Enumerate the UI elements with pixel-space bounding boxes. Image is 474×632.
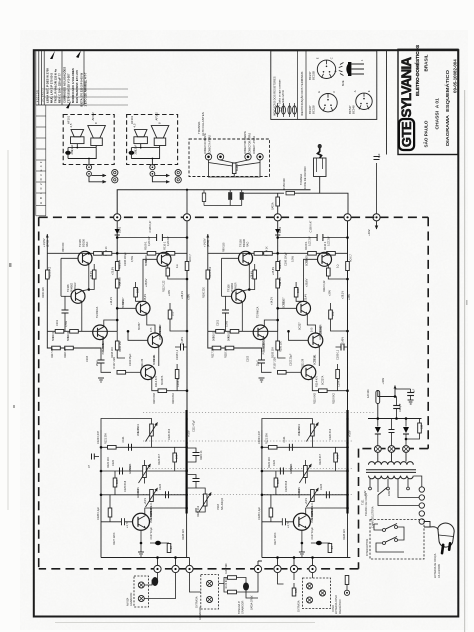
- svg-text:TOMADA: TOMADA: [299, 174, 303, 185]
- svg-text:4,5: 4,5: [69, 123, 73, 127]
- svg-text:A: A: [353, 90, 357, 92]
- bypass capacitor C127 leads: [150, 542, 169, 544]
- scan edge artifact left: [8, 150, 9, 510]
- divider network resistor RB1: [228, 576, 237, 580]
- phono jack ring 3: [320, 590, 326, 596]
- left strip divider 10: [36, 215, 46, 217]
- resistor symbol sample 2: [282, 103, 286, 117]
- headphone series resistor lead: [295, 192, 320, 194]
- svg-text:5K6: 5K6: [176, 454, 179, 459]
- title block GTE logo box: [399, 119, 414, 150]
- resistor R116 leads: [136, 282, 143, 301]
- fuse F101 body: [376, 391, 380, 404]
- feedthrough J3: [274, 214, 281, 221]
- terminal arrow upper: [92, 175, 107, 177]
- svg-text:SAÍDA: SAÍDA: [272, 202, 275, 210]
- emitter degeneration resistor: [92, 270, 96, 279]
- svg-text:(2708): (2708): [47, 240, 50, 247]
- power amplifier right channel (duplicate of left): [203, 220, 353, 410]
- svg-text:BC237A: BC237A: [161, 375, 164, 385]
- svg-text:CONECT. ATRÁS: CONECT. ATRÁS: [253, 135, 256, 154]
- feedback bus thick rail: [186, 410, 188, 514]
- voltage selector contact 2: [387, 487, 390, 490]
- preamp / tone control right channel (duplicate of left): [258, 410, 352, 558]
- coupling capacitor C152 body fill: [240, 192, 243, 200]
- mains feedthrough M2 cross: [389, 447, 393, 451]
- speaker wiring bottom bus: [68, 148, 96, 159]
- svg-text:DIAGRAMA ESQUEMÁTICO: DIAGRAMA ESQUEMÁTICO: [444, 70, 451, 146]
- left strip divider 3: [36, 137, 46, 139]
- phono input dashed box: [303, 578, 331, 609]
- left strip divider 9: [36, 205, 46, 207]
- svg-text:R111 39: R111 39: [141, 358, 144, 368]
- svg-text:C121: C121: [122, 436, 125, 443]
- extra resistor on bus: [103, 252, 112, 256]
- bass pot leads: [144, 460, 146, 484]
- svg-text:R99 150: R99 150: [62, 242, 65, 252]
- bottom feedthrough JB4: [254, 565, 261, 572]
- primary tap lead 1: [369, 479, 371, 487]
- headphone series resistor: [286, 191, 295, 195]
- svg-text:R141 560: R141 560: [225, 563, 228, 574]
- svg-text:1A: 1A: [367, 395, 370, 398]
- terminal strip circle 1: [419, 487, 424, 492]
- mating connector ring upper: [112, 170, 118, 176]
- coupling capacitor C151 plates: [229, 192, 232, 200]
- gang line 2: [143, 440, 352, 442]
- scan speck 3: [466, 300, 468, 305]
- bottom feedthrough JB7: [309, 565, 316, 572]
- speaker box dashed outline: [63, 115, 114, 165]
- svg-text:BC337: BC337: [138, 322, 141, 330]
- chassis dashed border notch top: [359, 448, 429, 450]
- supply feed junction dot: [375, 216, 377, 218]
- svg-text:ELETRO-DOMÉSTICOS: ELETRO-DOMÉSTICOS: [413, 45, 420, 96]
- TR103 collector wire: [145, 508, 187, 515]
- svg-text:ENTRADA: ENTRADA: [298, 600, 301, 612]
- stray capacitor lead: [94, 456, 99, 458]
- mains switch arm b: [385, 537, 397, 543]
- svg-text:C: C: [330, 57, 334, 59]
- svg-text:VOL.: VOL.: [137, 430, 140, 436]
- feedback tap resistor vertical: [175, 370, 179, 379]
- tape input jack ring 2: [207, 597, 213, 603]
- svg-text:0,5W: 0,5W: [65, 321, 68, 327]
- transformer T101 core line 2: [366, 471, 416, 473]
- mains switch dashed box: [370, 520, 424, 560]
- capacitor C142 ground: [408, 400, 414, 404]
- revision table check mark 3: [66, 101, 71, 109]
- mating connector ring upper mark: [114, 171, 116, 173]
- right channel input drop wires: [258, 558, 313, 566]
- voltage selector contact 1: [369, 487, 372, 490]
- junction dot p8: [140, 542, 143, 545]
- junction dot j: [186, 389, 189, 392]
- svg-text:25µF: 25µF: [96, 360, 99, 366]
- svg-text:GRAVADOR: GRAVADOR: [199, 606, 202, 620]
- voltage selector arm: [378, 488, 387, 496]
- TO-92 package symbol: [339, 59, 364, 76]
- svg-text:C101: C101: [56, 319, 59, 326]
- scan edge artifact bottom: [55, 622, 315, 623]
- TR105 collector wire: [88, 252, 90, 255]
- svg-text:GRAVADOR: GRAVADOR: [130, 592, 133, 606]
- aux jack ring: [344, 590, 349, 595]
- bias network capacitor lead: [64, 296, 66, 331]
- revision table rule 1: [44, 88, 128, 90]
- svg-text:C123: C123: [159, 483, 162, 490]
- svg-text:1K: 1K: [170, 546, 173, 549]
- svg-text:BD135: BD135: [122, 300, 125, 308]
- gang line 3: [143, 468, 352, 470]
- recorder wiring link 1: [144, 573, 157, 585]
- stray capacitor near left margin plates: [92, 454, 95, 460]
- chassis dashed border bottom edge: [39, 568, 359, 570]
- svg-text:A B 1 C 2 D 3: A B 1 C 2 D 3 E 4 F: [39, 161, 43, 204]
- svg-text:R119 8K2: R119 8K2: [172, 392, 175, 404]
- phono jack ring 2: [307, 597, 313, 603]
- tweeter drop wire: [76, 144, 78, 148]
- input bus left vertical: [100, 430, 102, 558]
- terminal T4 wire to load: [234, 160, 260, 166]
- phono jack ring 1: [307, 583, 313, 589]
- svg-text:C124 0,047: C124 0,047: [97, 430, 100, 444]
- TR109 emitter resistor: [166, 268, 170, 276]
- junction dot h: [88, 288, 91, 291]
- tone network wire y418: [101, 419, 152, 431]
- feedthrough J2 stub dot: [186, 189, 188, 191]
- svg-text:INTERRUPTOR: INTERRUPTOR: [366, 539, 369, 556]
- base bias wire x61: [60, 258, 62, 296]
- gang line 1: [143, 412, 375, 414]
- revision table column line c: [43, 51, 45, 105]
- tone bus y495: [101, 494, 187, 496]
- resistor R105 vertical: [115, 279, 119, 288]
- svg-text:B: B: [334, 70, 338, 72]
- svg-text:09-05-10082-004: 09-05-10082-004: [453, 59, 458, 93]
- svg-text:0,22 2W: 0,22 2W: [167, 236, 170, 246]
- svg-text:0,22 2W: 0,22 2W: [148, 236, 151, 246]
- terminal strip circle 4: [419, 511, 424, 516]
- svg-text:FONE DE OUVIDO: FONE DE OUVIDO: [303, 167, 307, 189]
- svg-text:R142 8K2: R142 8K2: [225, 577, 228, 588]
- svg-text:1 ETO 220 AMARILL 4-7-7: 1 ETO 220 AMARILL 4-7-7: [84, 72, 88, 106]
- mains switch arm a: [385, 524, 397, 530]
- svg-text:+14,2V: +14,2V: [110, 297, 113, 305]
- svg-text:P103: P103: [217, 504, 220, 510]
- transistor TR102: [93, 325, 108, 340]
- revision table rule 2: [44, 96, 128, 98]
- capacitor C151 bottom lead: [229, 200, 231, 206]
- wiring junction dot 2: [88, 158, 90, 160]
- connector label arrow 2: [258, 152, 259, 155]
- revision table outline: [36, 51, 84, 105]
- svg-text:R128 12K: R128 12K: [182, 529, 185, 540]
- primary tap lead 4: [397, 479, 399, 492]
- svg-text:SAÍDA GRAV.: SAÍDA GRAV.: [251, 595, 254, 610]
- svg-text:110V: 110V: [364, 490, 367, 496]
- feedthrough J2 stub wire: [186, 190, 188, 214]
- svg-text:+0,6V: +0,6V: [188, 430, 191, 437]
- svg-text:+28V: +28V: [187, 294, 191, 300]
- rail continuation thin: [186, 514, 188, 558]
- bottom feedthrough JB1: [154, 565, 161, 572]
- capacitor C152 lead: [241, 190, 243, 193]
- junction dot p1: [100, 446, 103, 449]
- transistor TR101: [141, 365, 156, 380]
- input divider resistor vertical: [115, 341, 119, 350]
- svg-text:1µF: 1µF: [413, 388, 416, 393]
- left channel input drop wires: [158, 558, 190, 566]
- phono wiring 3: [312, 573, 314, 578]
- phono jack 2 cross: [308, 598, 312, 602]
- svg-text:C120 3K3: C120 3K3: [168, 428, 171, 440]
- speaker terminal T3: [245, 154, 251, 160]
- svg-text:+25,8V: +25,8V: [112, 267, 115, 275]
- TR105 base wire: [61, 257, 78, 259]
- diode D101 bar: [115, 234, 120, 236]
- TR106 collector link: [82, 290, 89, 291]
- crossover capacitor lead: [67, 148, 69, 159]
- supply feed junction: [373, 214, 380, 221]
- primary tap lead 2: [377, 479, 379, 492]
- voltage selector contact 3: [407, 487, 410, 490]
- phono jack 1 cross: [308, 584, 312, 588]
- junction dot p4: [185, 446, 188, 449]
- left strip divider 1: [36, 115, 46, 117]
- junction dot c: [116, 236, 119, 239]
- transistor pinout circle BC547: [353, 90, 372, 109]
- left strip divider 8: [36, 192, 46, 194]
- feedback capacitor C103 plates: [98, 360, 105, 363]
- svg-text:+25,4V: +25,4V: [144, 294, 147, 302]
- resistor R107 horizontal: [117, 371, 126, 375]
- supply area junction dot 4: [405, 417, 408, 420]
- svg-text:3K9: 3K9: [116, 479, 119, 484]
- mains feedthrough M3 cross: [404, 447, 408, 451]
- chassis side terminal dot: [88, 173, 90, 175]
- feedthrough J3 stub wire: [277, 193, 279, 213]
- tape input jack ring 1: [207, 581, 213, 587]
- svg-text:R119 1K: R119 1K: [200, 450, 203, 460]
- cable blob 2 lead: [246, 591, 258, 599]
- junction dot i: [186, 330, 189, 333]
- svg-text:1000µF: 1000µF: [399, 403, 402, 412]
- svg-text:AO 0,7: AO 0,7: [189, 254, 192, 262]
- svg-text:R117 330: R117 330: [51, 347, 54, 358]
- supply feed entry arrowhead: [394, 385, 397, 389]
- svg-text:C106 100µF: C106 100µF: [124, 252, 127, 266]
- svg-text:BRASIL: BRASIL: [424, 54, 429, 71]
- svg-text:C102 25µF: C102 25µF: [129, 353, 132, 366]
- resistor R113 vertical: [168, 310, 172, 319]
- tone bus y471: [101, 470, 187, 472]
- resistor symbol sample 4: [293, 103, 297, 117]
- bleeder resistor R143 vertical: [418, 423, 422, 433]
- speaker return wire: [88, 159, 90, 166]
- svg-text:TR105: TR105: [78, 239, 82, 247]
- rectifier diode D141 triangle: [375, 427, 381, 433]
- speaker terminal T3 dot: [247, 156, 250, 159]
- feedthrough J2: [183, 214, 190, 221]
- left strip divider 5: [36, 159, 46, 161]
- bias feed wire y237: [117, 237, 187, 239]
- phono resistor RB3 vertical: [292, 588, 296, 596]
- main bus y253: [47, 252, 187, 254]
- bass pot wiper arrow: [139, 464, 151, 483]
- mid rail capacitor Cb lead: [187, 475, 196, 489]
- svg-text:F101: F101: [367, 389, 370, 395]
- svg-text:SYLVANIA: SYLVANIA: [399, 57, 414, 118]
- svg-text:C103: C103: [86, 355, 89, 362]
- terminal strip circle 2: [419, 495, 424, 500]
- svg-text:CONECTA ATRÁS: CONECTA ATRÁS: [209, 135, 212, 154]
- svg-text:R121 39K: R121 39K: [105, 433, 108, 444]
- recorder output jack ring 2: [138, 596, 144, 602]
- transistor TR107: [136, 301, 150, 315]
- bottom bus y557: [101, 557, 190, 559]
- rectifier diode D141 bar: [375, 433, 381, 435]
- terminal strip circle 5: [419, 519, 424, 524]
- shielded cable blob 1: [152, 577, 158, 586]
- left strip divider 6: [36, 170, 46, 172]
- svg-text:220V: 220V: [388, 490, 391, 496]
- mains feedthrough M2: [388, 446, 395, 453]
- svg-text:1K5: 1K5: [150, 327, 153, 332]
- svg-text:R108 10K: R108 10K: [111, 347, 114, 358]
- headphone jack plug pin: [318, 147, 322, 158]
- TR101 emitter resistor wire: [152, 378, 187, 391]
- svg-text:BC33B: BC33B: [312, 71, 316, 80]
- rectifier diode D142 lead: [405, 419, 407, 427]
- headphone jack tip: [318, 144, 321, 148]
- left strip outer line: [35, 105, 37, 216]
- revision table column line b: [41, 51, 43, 105]
- mid rail capacitor Cb plates: [193, 479, 200, 482]
- mains switch contact a1: [383, 529, 386, 532]
- TR107 base wire: [117, 307, 136, 309]
- resistor R152: [202, 193, 205, 202]
- svg-text:TERMICA: TERMICA: [96, 306, 99, 318]
- capacitor C105 plates: [157, 234, 163, 241]
- coupling capacitor C151 body fill: [229, 192, 232, 200]
- revision table column line a: [38, 51, 40, 105]
- emitter resistor R129 vertical: [167, 544, 171, 553]
- mains switch contact b1: [383, 542, 386, 545]
- svg-text:R122 10K: R122 10K: [107, 457, 110, 468]
- transformer T101 secondary winding: [369, 462, 414, 465]
- phono input wiring 2: [293, 573, 295, 588]
- supply area junction dot 1: [394, 395, 397, 398]
- TR102 collector wire: [104, 320, 117, 327]
- junction dot p7: [185, 507, 188, 510]
- filter capacitor C142 link: [395, 388, 411, 390]
- primary tap lead 5: [407, 479, 409, 487]
- primary tap lead 3: [387, 479, 389, 487]
- left strip divider 4: [36, 148, 46, 150]
- scan speck 1: [9, 263, 12, 267]
- mains switch contact b2: [395, 539, 398, 542]
- recorder output jack 2 cross: [139, 597, 143, 601]
- junction dot d: [186, 236, 189, 239]
- supply feed stub arrow: [376, 221, 378, 229]
- mid rail capacitor Ca plates: [193, 453, 200, 456]
- rail junction dot r3: [185, 469, 187, 471]
- resistor R110: [166, 252, 175, 256]
- svg-text:BC548: BC548: [352, 105, 356, 114]
- svg-text:1Ω: 1Ω: [175, 265, 179, 268]
- svg-text:R110 1: R110 1: [163, 241, 167, 250]
- tweeter AF101 cone: [71, 130, 84, 137]
- svg-text:ENTRADA: ENTRADA: [196, 596, 199, 608]
- mains switch contact a2: [395, 526, 398, 529]
- resistor R101: [55, 330, 64, 334]
- left strip inner line: [45, 105, 47, 216]
- svg-text:+29V: +29V: [167, 290, 171, 296]
- TR109 emitter lead: [168, 265, 187, 279]
- title block left column line: [386, 50, 388, 155]
- left channel input drop dots: [156, 556, 177, 559]
- output zobel wire: [175, 346, 187, 348]
- transistor pinout circle BC327: [317, 91, 337, 112]
- junction dot a: [116, 252, 119, 255]
- supply area junction dot 2: [395, 417, 398, 420]
- svg-text:R114 470: R114 470: [154, 375, 158, 387]
- svg-text:MAGNÉTICO: MAGNÉTICO: [339, 599, 342, 614]
- strip wire 2: [398, 492, 419, 498]
- speaker terminal T2: [217, 154, 223, 160]
- TR106 base wire: [61, 295, 71, 297]
- capacitor C121 plates: [129, 444, 132, 451]
- TR110 base wire: [128, 331, 148, 340]
- bottom feedthrough JB2: [172, 565, 179, 572]
- aux jack dot: [346, 592, 348, 594]
- emitter ground symbol: [138, 552, 144, 556]
- svg-text:1K2: 1K2: [118, 281, 122, 286]
- speaker terminal T1 dot: [207, 156, 210, 159]
- mains feedthrough M1 cross: [376, 447, 380, 451]
- supply rail arrow tip: [46, 234, 49, 238]
- recorder wiring link 2: [144, 573, 175, 599]
- svg-text:GRAVADOR: GRAVADOR: [242, 600, 245, 614]
- lower divider bus y348: [47, 331, 101, 352]
- svg-text:D101: D101: [118, 226, 122, 233]
- svg-text:25V: 25V: [70, 150, 74, 155]
- resistor R152 lead: [203, 190, 205, 193]
- headphone output wire: [320, 177, 348, 214]
- svg-text:MJE: MJE: [341, 80, 345, 86]
- svg-text:4K7: 4K7: [118, 264, 122, 269]
- TR101 base wire: [126, 371, 141, 373]
- supply rail +14.5V wire: [46, 234, 48, 331]
- svg-text:150: 150: [421, 424, 424, 429]
- filter capacitor C142 leads: [410, 389, 412, 400]
- svg-text:C127 10µF: C127 10µF: [150, 527, 153, 540]
- pot bottom lead: [151, 436, 153, 447]
- woofer AF102 frame: [91, 138, 103, 146]
- svg-text:ENTRADA FONO: ENTRADA FONO: [335, 595, 338, 614]
- svg-text:K: K: [367, 90, 371, 92]
- left strip divider 2: [36, 126, 46, 128]
- TR109 base lead: [143, 259, 157, 301]
- vertical divider rail x117: [116, 253, 118, 331]
- svg-text:C126 0,1µF: C126 0,1µF: [97, 506, 100, 520]
- svg-text:R100 220: R100 220: [42, 287, 45, 298]
- TR103 base wire: [101, 521, 132, 523]
- center tap capacitor leads: [391, 419, 393, 446]
- diode D101 triangle: [115, 229, 120, 234]
- svg-text:CA 110/220V: CA 110/220V: [438, 564, 441, 578]
